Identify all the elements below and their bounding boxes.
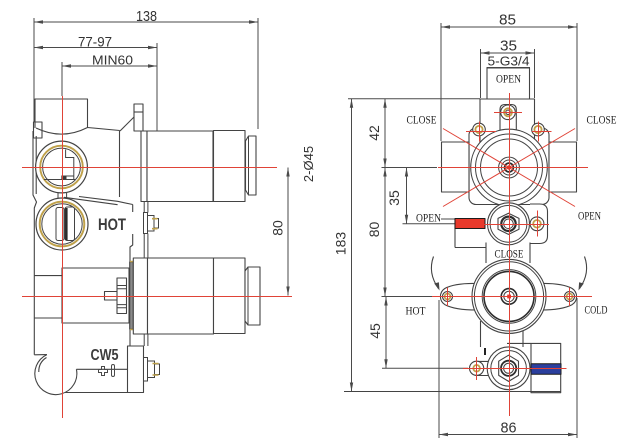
arrow 42 T	[383, 99, 386, 108]
square plate behind top valve	[469, 128, 549, 205]
centerline vertical x62	[62, 96, 64, 418]
svg-text:45: 45	[367, 323, 383, 339]
cw5 plus symbol	[99, 367, 108, 376]
port2 gold ring	[533, 220, 541, 228]
red inlet rect	[455, 219, 485, 229]
mid body step diagonals	[64, 197, 133, 205]
port3 tick v	[476, 357, 478, 380]
top port block	[487, 68, 530, 99]
dim 35 ext right	[534, 49, 536, 98]
bottom right block	[531, 343, 561, 392]
cartridge2 rib stack	[117, 278, 127, 314]
port3 circle	[470, 361, 484, 375]
cw5 bar symbol	[112, 365, 115, 377]
port2 circle	[530, 217, 544, 231]
right view dim texts	[333, 12, 530, 437]
bottomvalve hex	[499, 355, 519, 381]
svg-text:CLOSE: CLOSE	[407, 113, 437, 127]
cartridge2 cap line	[247, 267, 249, 325]
top valve hub outer	[499, 157, 520, 178]
dim 183 line	[351, 99, 353, 392]
dim 86 ext left	[438, 300, 440, 438]
arrow MIN60 L	[62, 64, 71, 67]
outlet pipe bottom line	[65, 392, 127, 394]
dim 138 line	[34, 21, 258, 23]
top valve hub inner	[502, 160, 517, 175]
ext y223.8	[403, 223, 456, 225]
svg-text:OPEN: OPEN	[416, 211, 441, 225]
port circle 2 ring gold	[40, 202, 85, 247]
arrow 35t R	[526, 51, 535, 54]
bolt2 flange	[144, 358, 148, 382]
bolt2 hex head	[148, 361, 155, 378]
top port inner	[506, 110, 510, 114]
neck between ports	[58, 193, 67, 199]
side block right	[549, 142, 577, 192]
arrow 42/80 M1	[383, 159, 386, 168]
svg-text:OPEN: OPEN	[496, 72, 521, 86]
arrow 138 R	[249, 20, 258, 23]
mid body top edge	[88, 128, 120, 131]
top boss	[35, 99, 88, 128]
ear left tick h	[466, 131, 496, 133]
bottom valve h	[463, 368, 567, 370]
right view dim arrowheads	[350, 25, 577, 436]
dim 35 top line	[481, 52, 535, 54]
top valve center ring	[505, 163, 514, 172]
svg-text:77-97: 77-97	[78, 34, 112, 50]
cartridge1 section2	[214, 131, 246, 202]
cartridge2 inner block	[62, 268, 129, 323]
ear left circle	[443, 292, 453, 302]
top port gold ring	[504, 108, 512, 116]
ear left gold	[445, 294, 451, 300]
arrow 35L T	[405, 168, 408, 177]
arrow 85 L	[441, 25, 450, 28]
valve2 tick h	[485, 224, 550, 226]
elbow inner notch	[39, 358, 47, 373]
arrow 80 B	[383, 288, 386, 297]
top port circle	[501, 105, 516, 120]
svg-text:2-Ø45: 2-Ø45	[301, 146, 316, 182]
dim 35 ext left	[480, 49, 482, 98]
mid body right edge upper	[119, 131, 121, 198]
dim 45 line	[385, 297, 387, 369]
arrowhead right	[579, 282, 584, 290]
top valve red dot	[507, 165, 511, 169]
arrow MIN60 R	[148, 64, 157, 67]
bolt1 gold washers	[152, 219, 158, 229]
dim 85 ext right	[576, 23, 578, 141]
red inlet block edges	[455, 219, 486, 248]
valve2 ring	[490, 205, 527, 242]
boss bottom arc	[36, 128, 88, 135]
internal line lower	[34, 317, 61, 319]
dim texts left view	[78, 8, 316, 236]
port3 lug	[476, 361, 493, 375]
svg-text:35: 35	[386, 190, 402, 206]
port circle 2 inner	[42, 204, 82, 244]
ear top-left gold	[475, 126, 482, 133]
curved arrow right	[580, 257, 587, 289]
port2 tick v	[537, 211, 539, 237]
midvalve hub	[501, 289, 517, 305]
svg-text:85: 85	[499, 12, 516, 29]
svg-text:CLOSE: CLOSE	[495, 247, 524, 261]
arrow 80L bottom	[286, 287, 289, 296]
svg-text:80: 80	[366, 222, 382, 238]
dim 42/80 line	[384, 99, 386, 297]
cartridge1 flange	[141, 131, 147, 202]
centerline horizontal y167	[22, 167, 277, 169]
port circle 1 ring gold	[40, 146, 83, 189]
leader red-rect	[441, 218, 455, 220]
cartridge2 dark collar	[130, 262, 134, 329]
center horizontal top valve	[438, 167, 588, 169]
block top edge left extension	[507, 342, 531, 344]
midvalve hub inner	[504, 291, 514, 301]
arrow 86 L	[439, 433, 448, 436]
cartridge2 main body	[148, 258, 214, 334]
blue rect	[531, 364, 561, 374]
svg-text:CW5: CW5	[91, 347, 119, 364]
midvalve red cross	[507, 295, 511, 299]
top valve circle outer	[471, 129, 548, 206]
ext line x62	[61, 62, 63, 96]
wing left	[440, 283, 476, 310]
ext line x157	[156, 43, 158, 131]
diagonal brace	[120, 117, 134, 131]
top valve circle 3	[481, 139, 538, 196]
arrow 77-97 L	[34, 46, 43, 49]
bottom plate line	[344, 391, 561, 393]
arrow 183 T	[350, 99, 353, 108]
arrow 77-97 R	[148, 46, 157, 49]
arrow 80L top	[286, 168, 289, 177]
side block left	[442, 142, 470, 192]
midvalve ring4 dark	[484, 271, 534, 321]
port1 key dark	[62, 176, 67, 179]
ext y368.3	[382, 367, 468, 369]
svg-text:HOT: HOT	[98, 216, 126, 234]
arrow 138 L	[34, 20, 43, 23]
dim 138 ext right	[257, 18, 259, 129]
body left edge	[33, 131, 37, 355]
arrowheads left view dims	[34, 20, 290, 295]
mid body right edge mid	[132, 205, 134, 213]
port housing tab right	[530, 204, 548, 244]
plate 35 wide	[480, 99, 535, 150]
label 5-G3/4 underline	[487, 67, 531, 69]
port2 slot left	[56, 208, 64, 241]
ear left tick v mid	[447, 288, 449, 307]
port1 key detail	[44, 150, 75, 180]
svg-text:42: 42	[366, 125, 382, 141]
midvalve ring2	[474, 262, 543, 331]
port circle 1 inner	[43, 148, 81, 186]
arrow 45 T	[384, 297, 387, 306]
bolt1 flange	[144, 213, 148, 234]
cartridge2 section2	[214, 258, 246, 334]
cartridge2 flange	[133, 258, 147, 334]
ear top-left	[473, 123, 486, 136]
dim MIN60 line	[62, 65, 157, 67]
bottomvalve outer	[487, 347, 530, 390]
center vertical	[509, 93, 511, 416]
cartridge1 main body	[147, 131, 213, 202]
body inner edge line	[35, 136, 37, 194]
small dark tick	[484, 348, 486, 355]
svg-text:5-G3/4: 5-G3/4	[488, 54, 530, 69]
dim 86 ext right	[576, 298, 578, 438]
arrow 85 R	[568, 25, 577, 28]
valve2 inner	[504, 219, 514, 229]
port2 slot dark edge	[65, 208, 67, 240]
ear right tick v mid	[569, 288, 571, 307]
ear left tick v	[479, 122, 481, 142]
bolt1 tip	[154, 219, 159, 229]
mounting plate edge lines lower	[144, 334, 148, 346]
svg-text:80: 80	[270, 220, 286, 236]
svg-text:OPEN: OPEN	[578, 209, 601, 223]
dim 77-97 line	[34, 47, 157, 49]
bolt1 hex head	[148, 216, 155, 232]
column upper segment	[486, 243, 530, 264]
cartridge2 spindle stem	[105, 292, 118, 301]
ext y296.5	[382, 296, 440, 298]
rib lines	[117, 286, 127, 308]
mid body right edge lower	[130, 234, 133, 262]
ear top-right gold	[534, 126, 541, 133]
red filled centers	[507, 165, 511, 298]
dim 35 left line	[406, 168, 408, 224]
internal line upper	[34, 275, 61, 277]
svg-text:COLD: COLD	[585, 303, 608, 317]
ext y167.5	[382, 167, 438, 169]
valve2 dark ring	[501, 217, 515, 231]
cartridge1 end cap	[246, 136, 257, 195]
svg-text:CLOSE: CLOSE	[587, 113, 617, 127]
left tab	[34, 122, 43, 138]
arrow 35t L	[481, 51, 490, 54]
collar gold ticks	[130, 262, 134, 330]
ear right gold	[567, 294, 573, 300]
midvalve h	[432, 296, 592, 298]
bolt2 tip	[155, 364, 160, 375]
outlet pipe top line	[76, 368, 127, 370]
top port tick	[494, 112, 522, 114]
dim 183 top ext	[348, 98, 480, 100]
port circle 1 outer	[36, 141, 88, 193]
bolt2 gold washers	[153, 364, 159, 376]
dim 86 line	[439, 434, 577, 436]
arrow 45 B	[384, 359, 387, 368]
centerline horizontal y296	[22, 296, 292, 298]
top valve circle 2	[476, 134, 543, 201]
ear right tick v	[538, 122, 540, 142]
port circle 2 outer	[36, 198, 88, 250]
midvalve outer	[472, 259, 546, 333]
plate tab divider	[134, 111, 143, 113]
midvalve ring3	[482, 270, 536, 324]
bottomvalve hub inner	[504, 363, 514, 373]
arrow 35L B	[405, 215, 408, 224]
ear top-right	[532, 123, 545, 136]
curved arrow left	[431, 257, 438, 289]
X ray 1	[443, 129, 575, 207]
arrow 86 R	[568, 433, 577, 436]
X ray 2	[443, 129, 575, 207]
cartridge1 cap line	[248, 136, 250, 195]
plate top tab	[134, 104, 143, 131]
port2 slot right	[65, 207, 75, 241]
mid body lower right edge	[129, 329, 131, 346]
elbow top join	[34, 354, 47, 356]
dim 138 ext left	[33, 18, 35, 122]
ear right circle	[565, 292, 575, 302]
svg-text:183: 183	[333, 232, 349, 256]
outlet flange	[128, 346, 144, 393]
wing right	[541, 283, 577, 310]
arrow 80 M2	[383, 168, 386, 177]
svg-text:138: 138	[136, 8, 157, 25]
stem housing	[500, 105, 516, 132]
arrow 183 B	[350, 383, 353, 392]
svg-text:MIN60: MIN60	[92, 53, 133, 68]
ear right tick h	[532, 131, 552, 133]
valve2 hex nut	[498, 213, 519, 234]
dim 85 ext left	[440, 23, 442, 141]
svg-text:86: 86	[501, 420, 517, 437]
cartridge2 end cap	[245, 267, 260, 325]
bottomvalve ring2	[491, 351, 527, 387]
bottomvalve hub	[501, 361, 516, 376]
arrowhead left	[434, 282, 439, 290]
column lower segment	[481, 321, 524, 347]
valve2 outer circle	[488, 203, 530, 245]
mounting plate edge lines upper	[144, 202, 148, 259]
port3 gold ring	[473, 365, 480, 372]
elbow ball	[35, 355, 77, 395]
dim 85 line	[441, 26, 577, 28]
dim 80 left-view vertical line	[287, 168, 289, 296]
svg-text:35: 35	[500, 38, 517, 55]
svg-text:HOT: HOT	[406, 304, 427, 318]
